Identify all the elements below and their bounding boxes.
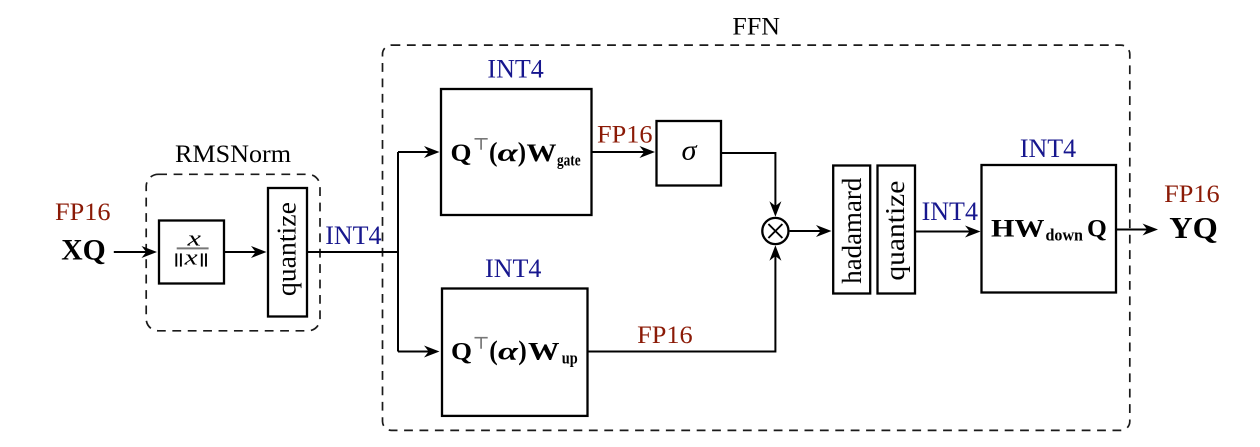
svg-text:YQ: YQ: [1169, 210, 1218, 245]
svg-text:FP16: FP16: [55, 197, 111, 226]
svg-text:quantize: quantize: [272, 202, 302, 296]
svg-text:hadamard: hadamard: [837, 177, 867, 283]
svg-text:FFN: FFN: [732, 13, 780, 40]
svg-text:INT4: INT4: [485, 254, 541, 283]
svg-text:Q(α)Wup: Q(α)Wup: [451, 335, 578, 367]
svg-text:INT4: INT4: [1020, 134, 1076, 163]
svg-text:FP16: FP16: [597, 119, 653, 148]
svg-text:INT4: INT4: [325, 221, 381, 250]
svg-text:σ: σ: [682, 136, 698, 167]
svg-text:FP16: FP16: [1164, 179, 1220, 208]
svg-text:XQ: XQ: [61, 233, 106, 266]
svg-text:RMSNorm: RMSNorm: [175, 141, 292, 168]
svg-text:FP16: FP16: [637, 320, 693, 349]
svg-text:INT4: INT4: [487, 54, 543, 83]
svg-text:quantize: quantize: [880, 181, 910, 281]
svg-text:x: x: [183, 245, 198, 270]
svg-text:INT4: INT4: [922, 197, 978, 226]
